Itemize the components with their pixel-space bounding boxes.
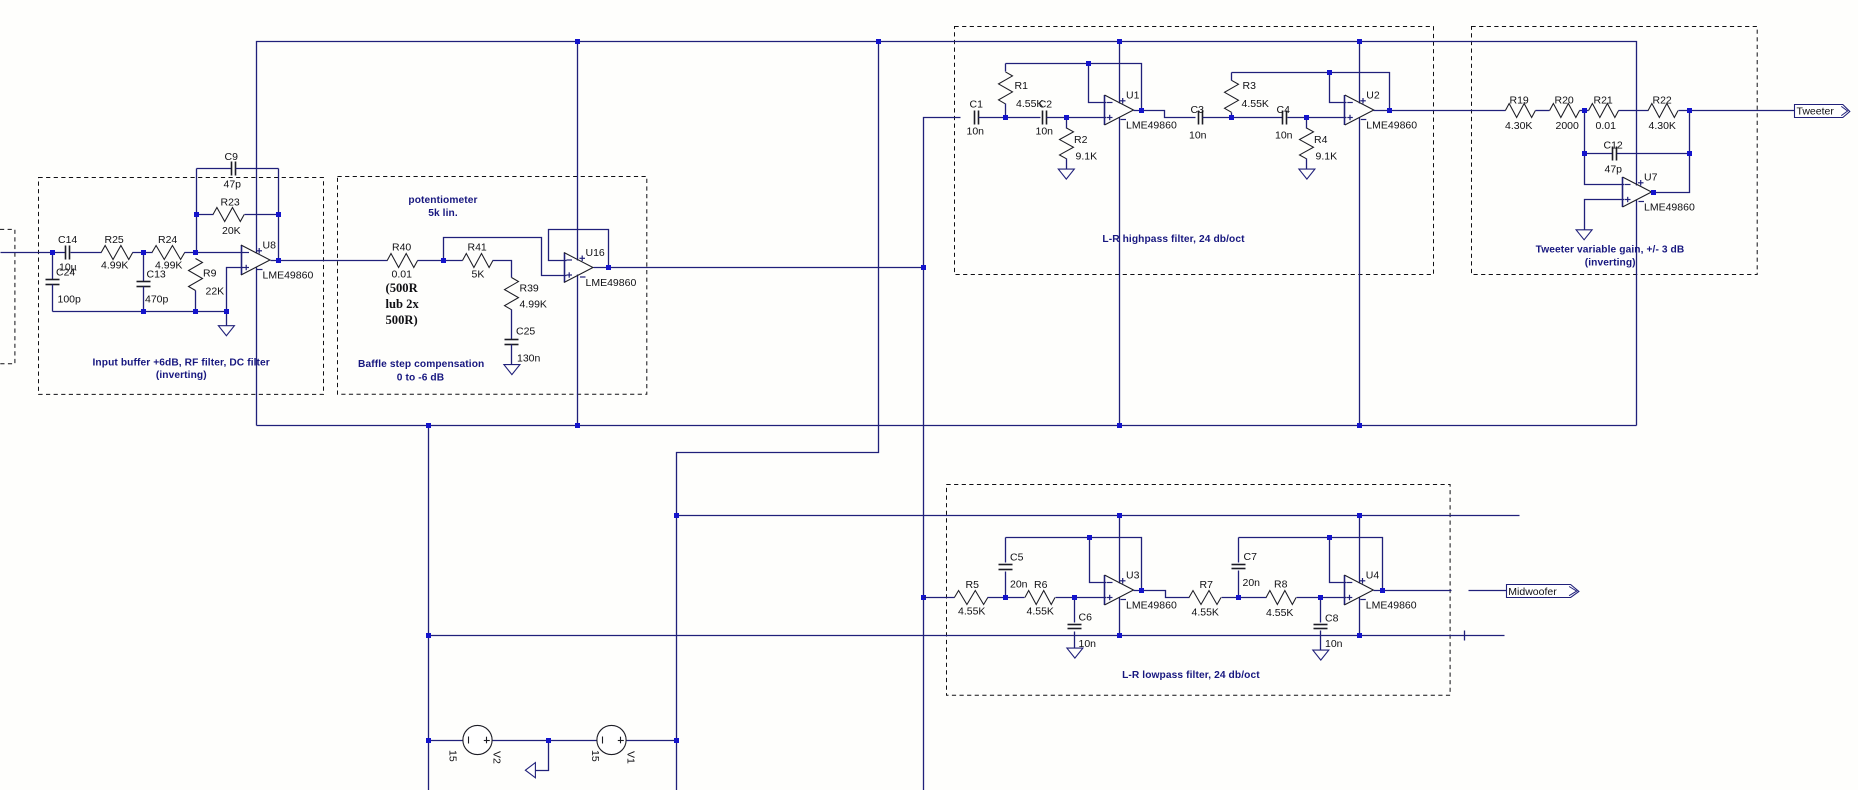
capacitor C25 (505, 310, 541, 365)
svg-text:L-R lowpass filter, 24 db/oct: L-R lowpass filter, 24 db/oct (1122, 670, 1260, 681)
node R7-R8 / C7 (1236, 595, 1241, 600)
wire V+ branch to lower rail (677, 42, 879, 790)
svg-text:R40: R40 (392, 241, 411, 253)
resistor R19 (1505, 95, 1535, 133)
svg-text:C5: C5 (1010, 552, 1024, 564)
svg-text:V2: V2 (490, 751, 502, 764)
wire R19 to R20 (1536, 110, 1550, 112)
svg-text:4.99K: 4.99K (155, 259, 182, 271)
node V2 minus to V- column (426, 738, 431, 743)
wire R40 to R41 (418, 260, 463, 262)
svg-text:C1: C1 (970, 98, 984, 110)
svg-text:R6: R6 (1034, 579, 1048, 591)
dashed box: tweeter variable gain block (1472, 27, 1758, 275)
svg-text:C24: C24 (56, 267, 75, 279)
svg-text:Input buffer +6dB, RF filter,: Input buffer +6dB, RF filter, DC filter (93, 357, 270, 368)
svg-text:15: 15 (447, 750, 459, 762)
svg-text:0 to -6 dB: 0 to -6 dB (397, 373, 444, 384)
svg-text:U3: U3 (1126, 570, 1140, 582)
svg-text:C12: C12 (1604, 139, 1623, 151)
svg-text:10n: 10n (967, 126, 985, 138)
svg-text:2000: 2000 (1556, 120, 1580, 132)
voltage source V1 (589, 725, 636, 764)
wire V+ pin drop U4 (1359, 516, 1361, 584)
svg-text:(inverting): (inverting) (1585, 257, 1636, 268)
node V1 plus to V+ column (674, 738, 679, 743)
svg-text:C4: C4 (1277, 104, 1291, 116)
node C12 right (1687, 151, 1692, 156)
wire V- rail (257, 425, 1637, 427)
wire pot tap to U16 non-inverting input (444, 238, 567, 276)
node V+ rail branch (876, 39, 881, 44)
wire V- U8 bottom pin (256, 268, 258, 426)
svg-text:V1: V1 (624, 751, 636, 764)
ground under R4 (1299, 169, 1315, 179)
wire R22 to tweeter port (1679, 110, 1795, 112)
svg-text:5k lin.: 5k lin. (428, 208, 458, 219)
node V- rail U2 pin (1357, 423, 1362, 428)
node feedback left R23 (194, 212, 199, 217)
svg-text:9.1K: 9.1K (1316, 151, 1338, 163)
wire U7 output up to R22 junction (1652, 111, 1690, 193)
wire ground bus of input filter (53, 311, 227, 313)
wire U16 feedback loop (549, 230, 609, 268)
node U4 output (1380, 588, 1385, 593)
caption tweeter gain block (1536, 244, 1685, 268)
resistor R8 (1266, 578, 1296, 619)
ground under input buffer (218, 326, 234, 336)
op-amp U8 (241, 240, 313, 282)
svg-text:U2: U2 (1366, 90, 1380, 102)
svg-text:R39: R39 (520, 283, 539, 295)
op-amp U4 (1344, 570, 1416, 612)
wire V+ pin drop U3 (1119, 516, 1121, 584)
svg-text:R7: R7 (1200, 579, 1214, 591)
node V- lower rail corner (426, 633, 431, 638)
node U8 output (276, 258, 281, 263)
node R40-R41 pot tap (441, 258, 446, 263)
resistor R2 (1060, 118, 1098, 170)
capacitor C13 (137, 253, 169, 312)
svg-text:4.30K: 4.30K (1505, 120, 1532, 132)
wire V- U16 bottom pin (577, 275, 579, 426)
svg-text:C2: C2 (1039, 98, 1053, 110)
svg-text:R2: R2 (1074, 134, 1088, 146)
wire C3 to C4 (1203, 117, 1283, 119)
node U3 output (1139, 588, 1144, 593)
node V- rail U1 pin (1117, 423, 1122, 428)
wire V+ pin drop U16 (577, 42, 579, 261)
wire feedback right vertical to U8 output (278, 169, 280, 261)
dashed box: L-R highpass filter block (955, 27, 1434, 275)
ground under R2 (1058, 169, 1074, 179)
wire U8 output (271, 260, 388, 262)
svg-text:L-R highpass filter, 24 db/oct: L-R highpass filter, 24 db/oct (1102, 234, 1245, 245)
resistor R6 (1025, 579, 1055, 617)
node V+ lower rail U3 pin (1117, 513, 1122, 518)
wire feedback to U3 inverting input (1090, 538, 1107, 583)
svg-text:R1: R1 (1015, 80, 1029, 92)
node R25-R24 / C13 (141, 250, 146, 255)
resistor R3 (1225, 73, 1269, 118)
node U7 output (1651, 190, 1656, 195)
wire U4 feedback top (1239, 538, 1383, 591)
wire C1 to C2 (979, 117, 1041, 119)
svg-text:4.55K: 4.55K (1192, 607, 1219, 619)
node supply mid ground (546, 738, 551, 743)
capacitor C8 (1314, 598, 1343, 651)
svg-text:9.1K: 9.1K (1076, 151, 1098, 163)
svg-text:R41: R41 (468, 241, 487, 253)
svg-text:C6: C6 (1079, 612, 1093, 624)
node U8 inverting input (193, 250, 198, 255)
resistor R23 (197, 197, 279, 238)
svg-text:LME49860: LME49860 (586, 277, 637, 289)
wire U16 output (594, 267, 924, 269)
resistor R40 (387, 241, 417, 280)
svg-text:Tweeter: Tweeter (1797, 106, 1835, 118)
wire R7 to R8 (1222, 597, 1267, 599)
svg-text:10n: 10n (1036, 126, 1054, 138)
resistor R21 (1589, 95, 1619, 133)
svg-text:R5: R5 (966, 579, 980, 591)
svg-text:R21: R21 (1594, 95, 1613, 107)
wire V- U7 bottom pin (1636, 200, 1638, 426)
node V- rail U16 pin (575, 423, 580, 428)
svg-text:4.99K: 4.99K (101, 259, 128, 271)
wire U3 output jog to R7 (1134, 591, 1190, 598)
svg-text:10n: 10n (1189, 129, 1207, 141)
resistor R1 (999, 64, 1044, 118)
svg-text:470p: 470p (145, 294, 169, 306)
wire input signal from left edge (1, 252, 66, 254)
svg-text:C7: C7 (1244, 551, 1258, 563)
ground under C6 (1067, 648, 1083, 658)
capacitor C3 (1189, 104, 1207, 142)
svg-text:Tweeter variable gain, +/- 3 d: Tweeter variable gain, +/- 3 dB (1536, 244, 1685, 255)
node V+ lower rail corner (674, 513, 679, 518)
wire V- U3 bottom pin (1119, 598, 1121, 636)
wire V- lower rail (429, 635, 1505, 637)
svg-text:LME49860: LME49860 (1366, 120, 1417, 132)
node feedback U4 (1327, 535, 1332, 540)
capacitor C2 (1036, 98, 1054, 137)
svg-text:47p: 47p (1605, 164, 1623, 176)
svg-text:22K: 22K (206, 286, 225, 298)
svg-text:U1: U1 (1126, 90, 1140, 102)
wire C2 to U1 non-inverting input (1047, 117, 1107, 119)
svg-text:C8: C8 (1325, 613, 1339, 625)
svg-text:4.55K: 4.55K (1266, 607, 1293, 619)
svg-text:U16: U16 (586, 247, 605, 259)
wire U2 feedback top (1232, 73, 1390, 111)
node ground bus C13 (141, 309, 146, 314)
wire V- U2 bottom pin (1359, 118, 1361, 426)
svg-text:47p: 47p (224, 179, 242, 191)
svg-text:130n: 130n (517, 353, 541, 365)
wire V+ lower rail (677, 515, 1520, 517)
capacitor C6 (1068, 598, 1097, 651)
svg-text:15: 15 (589, 750, 601, 762)
wire R24 to U8 inverting input (185, 252, 244, 254)
svg-text:R24: R24 (158, 234, 177, 246)
dashed box: baffle step compensation block (338, 177, 647, 395)
port Tweeter (1795, 105, 1850, 118)
svg-text:20n: 20n (1010, 579, 1028, 591)
wire V- U1 bottom pin (1119, 118, 1121, 426)
dashed box: L-R lowpass filter block (947, 485, 1451, 696)
svg-text:U4: U4 (1366, 570, 1380, 582)
caption baffle step block (358, 359, 484, 384)
node V+ rail U16 pin (575, 39, 580, 44)
svg-text:R3: R3 (1243, 80, 1257, 92)
wire V- U4 bottom pin (1359, 598, 1361, 636)
node R22 right / output column (1687, 108, 1692, 113)
wire U2 output to tweeter gain block (1374, 110, 1506, 112)
node R5-R6 / C5 (1003, 595, 1008, 600)
op-amp U2 (1345, 90, 1418, 132)
wire C12 junction to U7 inverting input (1585, 154, 1625, 185)
node C4 / R4 (1304, 115, 1309, 120)
wire R8 to U4 non-inverting input (1297, 597, 1347, 599)
svg-text:LME49860: LME49860 (1126, 120, 1177, 132)
capacitor C9 (197, 151, 279, 191)
node C1-C2 / R1 (1003, 115, 1008, 120)
wire feedback to U1 inverting input (1089, 64, 1107, 103)
svg-text:20n: 20n (1243, 577, 1261, 589)
svg-text:LME49860: LME49860 (1366, 600, 1417, 612)
wire feedback to U4 inverting input (1330, 538, 1347, 583)
svg-text:500R): 500R) (386, 313, 418, 327)
wire U4 output to midwoofer port (1374, 590, 1507, 592)
svg-text:C3: C3 (1191, 104, 1205, 116)
wire feedback to U2 inverting input (1330, 73, 1347, 103)
wire R6 to U3 non-inverting input (1056, 597, 1107, 599)
node V- lower rail U4 pin (1357, 633, 1362, 638)
resistor R5 (924, 579, 988, 617)
node U1 output (1139, 108, 1144, 113)
node feedback U2 (1327, 70, 1332, 75)
node input / C24 (50, 250, 55, 255)
capacitor C7 (1232, 538, 1261, 598)
caption potentiometer (408, 195, 477, 219)
svg-text:potentiometer: potentiometer (408, 195, 477, 206)
svg-text:U8: U8 (263, 240, 277, 252)
serif note (500R lub 2x 500R) (386, 281, 420, 327)
svg-text:C9: C9 (225, 151, 239, 163)
voltage source V2 (447, 725, 503, 764)
svg-text:C25: C25 (516, 326, 535, 338)
ground under U7 input (1576, 230, 1592, 240)
op-amp U7 (1623, 172, 1695, 214)
svg-text:0.01: 0.01 (392, 268, 413, 280)
svg-text:LME49860: LME49860 (263, 270, 314, 282)
node feedback U1 (1086, 61, 1091, 66)
op-amp U1 (1105, 90, 1177, 132)
resistor R39 (505, 278, 547, 311)
wire U7 non-inverting input to ground (1585, 200, 1625, 230)
ground under C8 (1313, 650, 1329, 660)
svg-text:20K: 20K (222, 225, 241, 237)
svg-text:R4: R4 (1314, 134, 1328, 146)
resistor R22 (1648, 95, 1678, 133)
wire C12 row (1585, 111, 1690, 154)
node U2 output (1387, 108, 1392, 113)
svg-text:R9: R9 (203, 268, 217, 280)
node feedback right R23 (276, 212, 281, 217)
resistor R24 (152, 234, 185, 271)
node V- rail branch (426, 423, 431, 428)
node V+ rail U2 pin (1357, 39, 1362, 44)
node R8 / C8 (1318, 595, 1323, 600)
resistor R41 (463, 241, 493, 280)
node column to lowpass input (921, 595, 926, 600)
svg-text:LME49860: LME49860 (1644, 202, 1695, 214)
svg-text:10n: 10n (1325, 638, 1343, 650)
svg-text:C14: C14 (58, 234, 77, 246)
svg-text:R22: R22 (1653, 95, 1672, 107)
capacitor C24 (46, 253, 82, 312)
node V- lower rail U3 pin (1117, 633, 1122, 638)
node R6 / C6 (1072, 595, 1077, 600)
dashed box: input buffer block (39, 178, 324, 395)
wire supply row V2-V1 (429, 740, 677, 742)
svg-text:4.55K: 4.55K (1242, 98, 1269, 110)
svg-text:(inverting): (inverting) (156, 370, 207, 381)
wire supply mid to ground arrow (536, 741, 549, 771)
svg-text:lub 2x: lub 2x (386, 297, 420, 311)
wire U8 non-inverting input to ground bus (227, 268, 244, 312)
wire R5 to R6 (988, 597, 1025, 599)
svg-text:Baffle step compensation: Baffle step compensation (358, 359, 484, 370)
capacitor C1 (967, 98, 985, 137)
capacitor C14 (58, 234, 77, 273)
wire R25 to R24 (133, 252, 153, 254)
wire C14 to R25 (71, 252, 102, 254)
wire U1 output jog to C3 (1134, 111, 1196, 118)
resistor R7 (1189, 579, 1221, 618)
wire signal column to highpass and lowpass (924, 118, 961, 790)
wire U3 feedback top (1006, 538, 1142, 591)
wire V+ top rail (257, 42, 1637, 254)
wire R20 to R21 (1580, 110, 1589, 112)
svg-text:0.01: 0.01 (1596, 120, 1617, 132)
caption input buffer block (93, 357, 270, 381)
capacitor C4 (1275, 104, 1293, 142)
node ground bus symbol (224, 309, 229, 314)
wire V+ pin drop U2 (1359, 42, 1361, 104)
svg-text:R20: R20 (1555, 95, 1574, 107)
wire U1 feedback top (1006, 64, 1142, 111)
wire C4 to U2 non-inverting input (1288, 117, 1347, 119)
port Midwoofer (1507, 585, 1579, 598)
ground symbol of input buffer (226, 312, 228, 326)
op-amp U16 (564, 247, 636, 289)
svg-text:(500R: (500R (386, 281, 419, 295)
svg-text:4.55K: 4.55K (1027, 606, 1054, 618)
node feedback U3 (1087, 535, 1092, 540)
svg-text:R25: R25 (105, 234, 124, 246)
resistor R4 (1300, 118, 1338, 170)
svg-text:10n: 10n (1275, 129, 1293, 141)
wire R21 to R22 (1619, 110, 1649, 112)
node C12 left (1582, 151, 1587, 156)
resistor R9 (189, 259, 225, 312)
node V+ rail U1 pin (1117, 39, 1122, 44)
wire end tick on V- lower rail (1464, 631, 1466, 641)
capacitor C5 (999, 538, 1028, 598)
svg-text:LME49860: LME49860 (1126, 600, 1177, 612)
ground arrow at supply mid (525, 763, 535, 778)
wire V+ pin drop U1 (1119, 42, 1121, 104)
wire R41 to R39 top (493, 261, 512, 278)
svg-text:4.99K: 4.99K (520, 299, 547, 311)
svg-text:Midwoofer: Midwoofer (1508, 586, 1557, 598)
svg-text:5K: 5K (472, 268, 485, 280)
node U16 output (606, 265, 611, 270)
svg-text:R23: R23 (221, 197, 240, 209)
node ground bus R9 (193, 309, 198, 314)
ground under C25 (504, 365, 520, 375)
node U16 output to column (921, 265, 926, 270)
node C2 / R2 (1064, 115, 1069, 120)
resistor R25 (101, 234, 133, 271)
node R20-R21 / C12 left (1582, 108, 1587, 113)
svg-text:R8: R8 (1274, 578, 1288, 590)
svg-text:R19: R19 (1510, 95, 1529, 107)
op-amp U3 (1105, 570, 1177, 612)
wire V- branch down to V2 (428, 426, 430, 790)
wire feedback left vertical to C9/R23 (196, 169, 198, 253)
node V+ lower rail U4 pin (1357, 513, 1362, 518)
svg-text:4.30K: 4.30K (1649, 120, 1676, 132)
svg-text:100p: 100p (58, 294, 82, 306)
svg-text:U7: U7 (1644, 172, 1658, 184)
resistor R20 (1550, 95, 1580, 133)
node C3-C4 / R3 (1229, 115, 1234, 120)
svg-text:4.55K: 4.55K (958, 606, 985, 618)
capacitor C12 (1604, 139, 1623, 175)
dashed box fragment at left edge (0, 229, 15, 363)
